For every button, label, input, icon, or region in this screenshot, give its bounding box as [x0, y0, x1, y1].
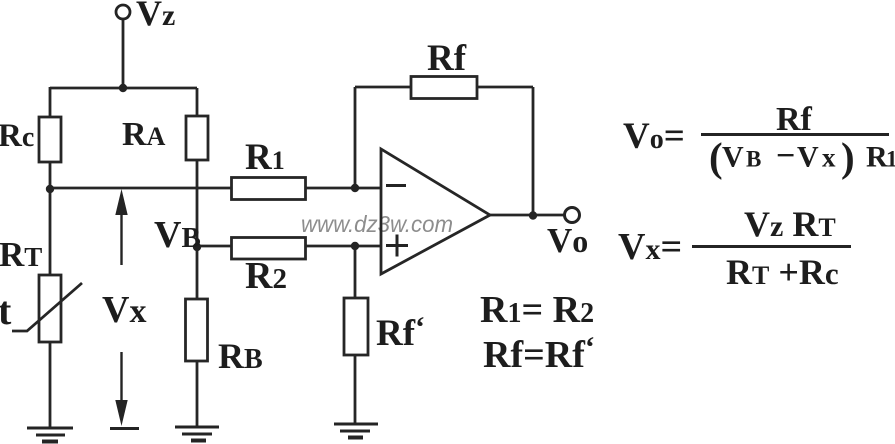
resistor RB [186, 299, 208, 361]
svg-text:R1= R2: R1= R2 [480, 289, 594, 331]
wire RA top lead [196, 88, 199, 116]
wire top rail [50, 87, 197, 90]
terminal Vz [116, 5, 130, 19]
formula Vo = Rf / ((VB - Vx) R1) [623, 101, 895, 180]
wire feedback left vertical [354, 87, 357, 188]
wire R2 to op-amp [306, 245, 381, 248]
svg-text:RB: RB [218, 336, 263, 376]
resistor R1 [232, 178, 306, 200]
wire Rc top lead [49, 87, 52, 117]
wire Rf' top lead [354, 246, 357, 298]
op-amp plus sign [386, 235, 408, 257]
svg-text:t: t [0, 288, 12, 333]
op-amp minus sign [386, 184, 406, 187]
junction inverting node [351, 184, 359, 192]
svg-text:R2: R2 [245, 255, 287, 297]
svg-text:Vx: Vx [102, 289, 146, 331]
svg-text:VB: VB [154, 214, 201, 256]
resistor Rf' [344, 298, 368, 355]
resistor RA [186, 116, 208, 160]
wire inverting rail [50, 187, 231, 190]
wire R1 to op-amp [306, 187, 381, 190]
wire Rf' bottom lead [354, 355, 357, 424]
wire RB top lead [196, 247, 199, 299]
svg-text:Vz RT: Vz RT [744, 204, 836, 244]
op-amp U1 [381, 149, 490, 274]
junction node VB [193, 243, 201, 251]
terminal Vo [565, 208, 580, 223]
junction output node [529, 211, 537, 219]
wire RT bottom lead [49, 342, 52, 428]
wire output [489, 214, 565, 217]
arrow Vx up [115, 189, 127, 265]
ground Rf' [334, 424, 378, 438]
resistor Rf [411, 77, 477, 99]
formula Vx = Vz RT / (RT + Rc) [618, 204, 851, 292]
wire RA to node VB [196, 160, 199, 247]
svg-text:Vo: Vo [547, 221, 588, 260]
junction node Vx [46, 185, 54, 193]
junction Vz node [119, 84, 127, 92]
svg-text:Rc: Rc [0, 118, 34, 154]
ground RB [175, 427, 219, 441]
svg-text:Vx=: Vx= [618, 226, 682, 268]
svg-text:Rf: Rf [776, 101, 813, 138]
svg-text:(VB−Vx)R1: (VB−Vx)R1 [709, 134, 895, 180]
ground reference line under Vx arrow [110, 427, 139, 430]
wire feedback top rail right [477, 86, 533, 89]
thermistor RT diagonal [12, 283, 82, 331]
svg-text:RT: RT [0, 235, 42, 274]
wire RT top lead [49, 188, 52, 275]
resistor R2 [232, 238, 306, 260]
wire Vz stem [122, 19, 125, 88]
ground RT [27, 428, 73, 442]
svg-text:RA: RA [122, 116, 166, 153]
wire Rc bottom lead [49, 162, 52, 190]
arrow Vx down [115, 352, 127, 426]
resistor Rc [39, 117, 61, 162]
svg-text:RT +Rc: RT +Rc [726, 252, 839, 292]
svg-text:Rf‘: Rf‘ [376, 311, 425, 354]
wire feedback top rail left [355, 86, 411, 89]
wire RB bottom lead [196, 361, 199, 427]
svg-text:www.dz3w.com: www.dz3w.com [301, 211, 453, 237]
wire VB to R2 [197, 245, 231, 248]
svg-text:Vo=: Vo= [623, 116, 685, 157]
svg-text:Rf: Rf [427, 38, 467, 79]
svg-text:R1: R1 [245, 137, 285, 178]
thermistor RT body [39, 275, 61, 342]
svg-text:Vz: Vz [136, 0, 175, 33]
svg-text:Rf=Rf‘: Rf=Rf‘ [483, 331, 595, 376]
wire feedback right vertical [532, 87, 535, 216]
junction non-inverting node [351, 242, 359, 250]
